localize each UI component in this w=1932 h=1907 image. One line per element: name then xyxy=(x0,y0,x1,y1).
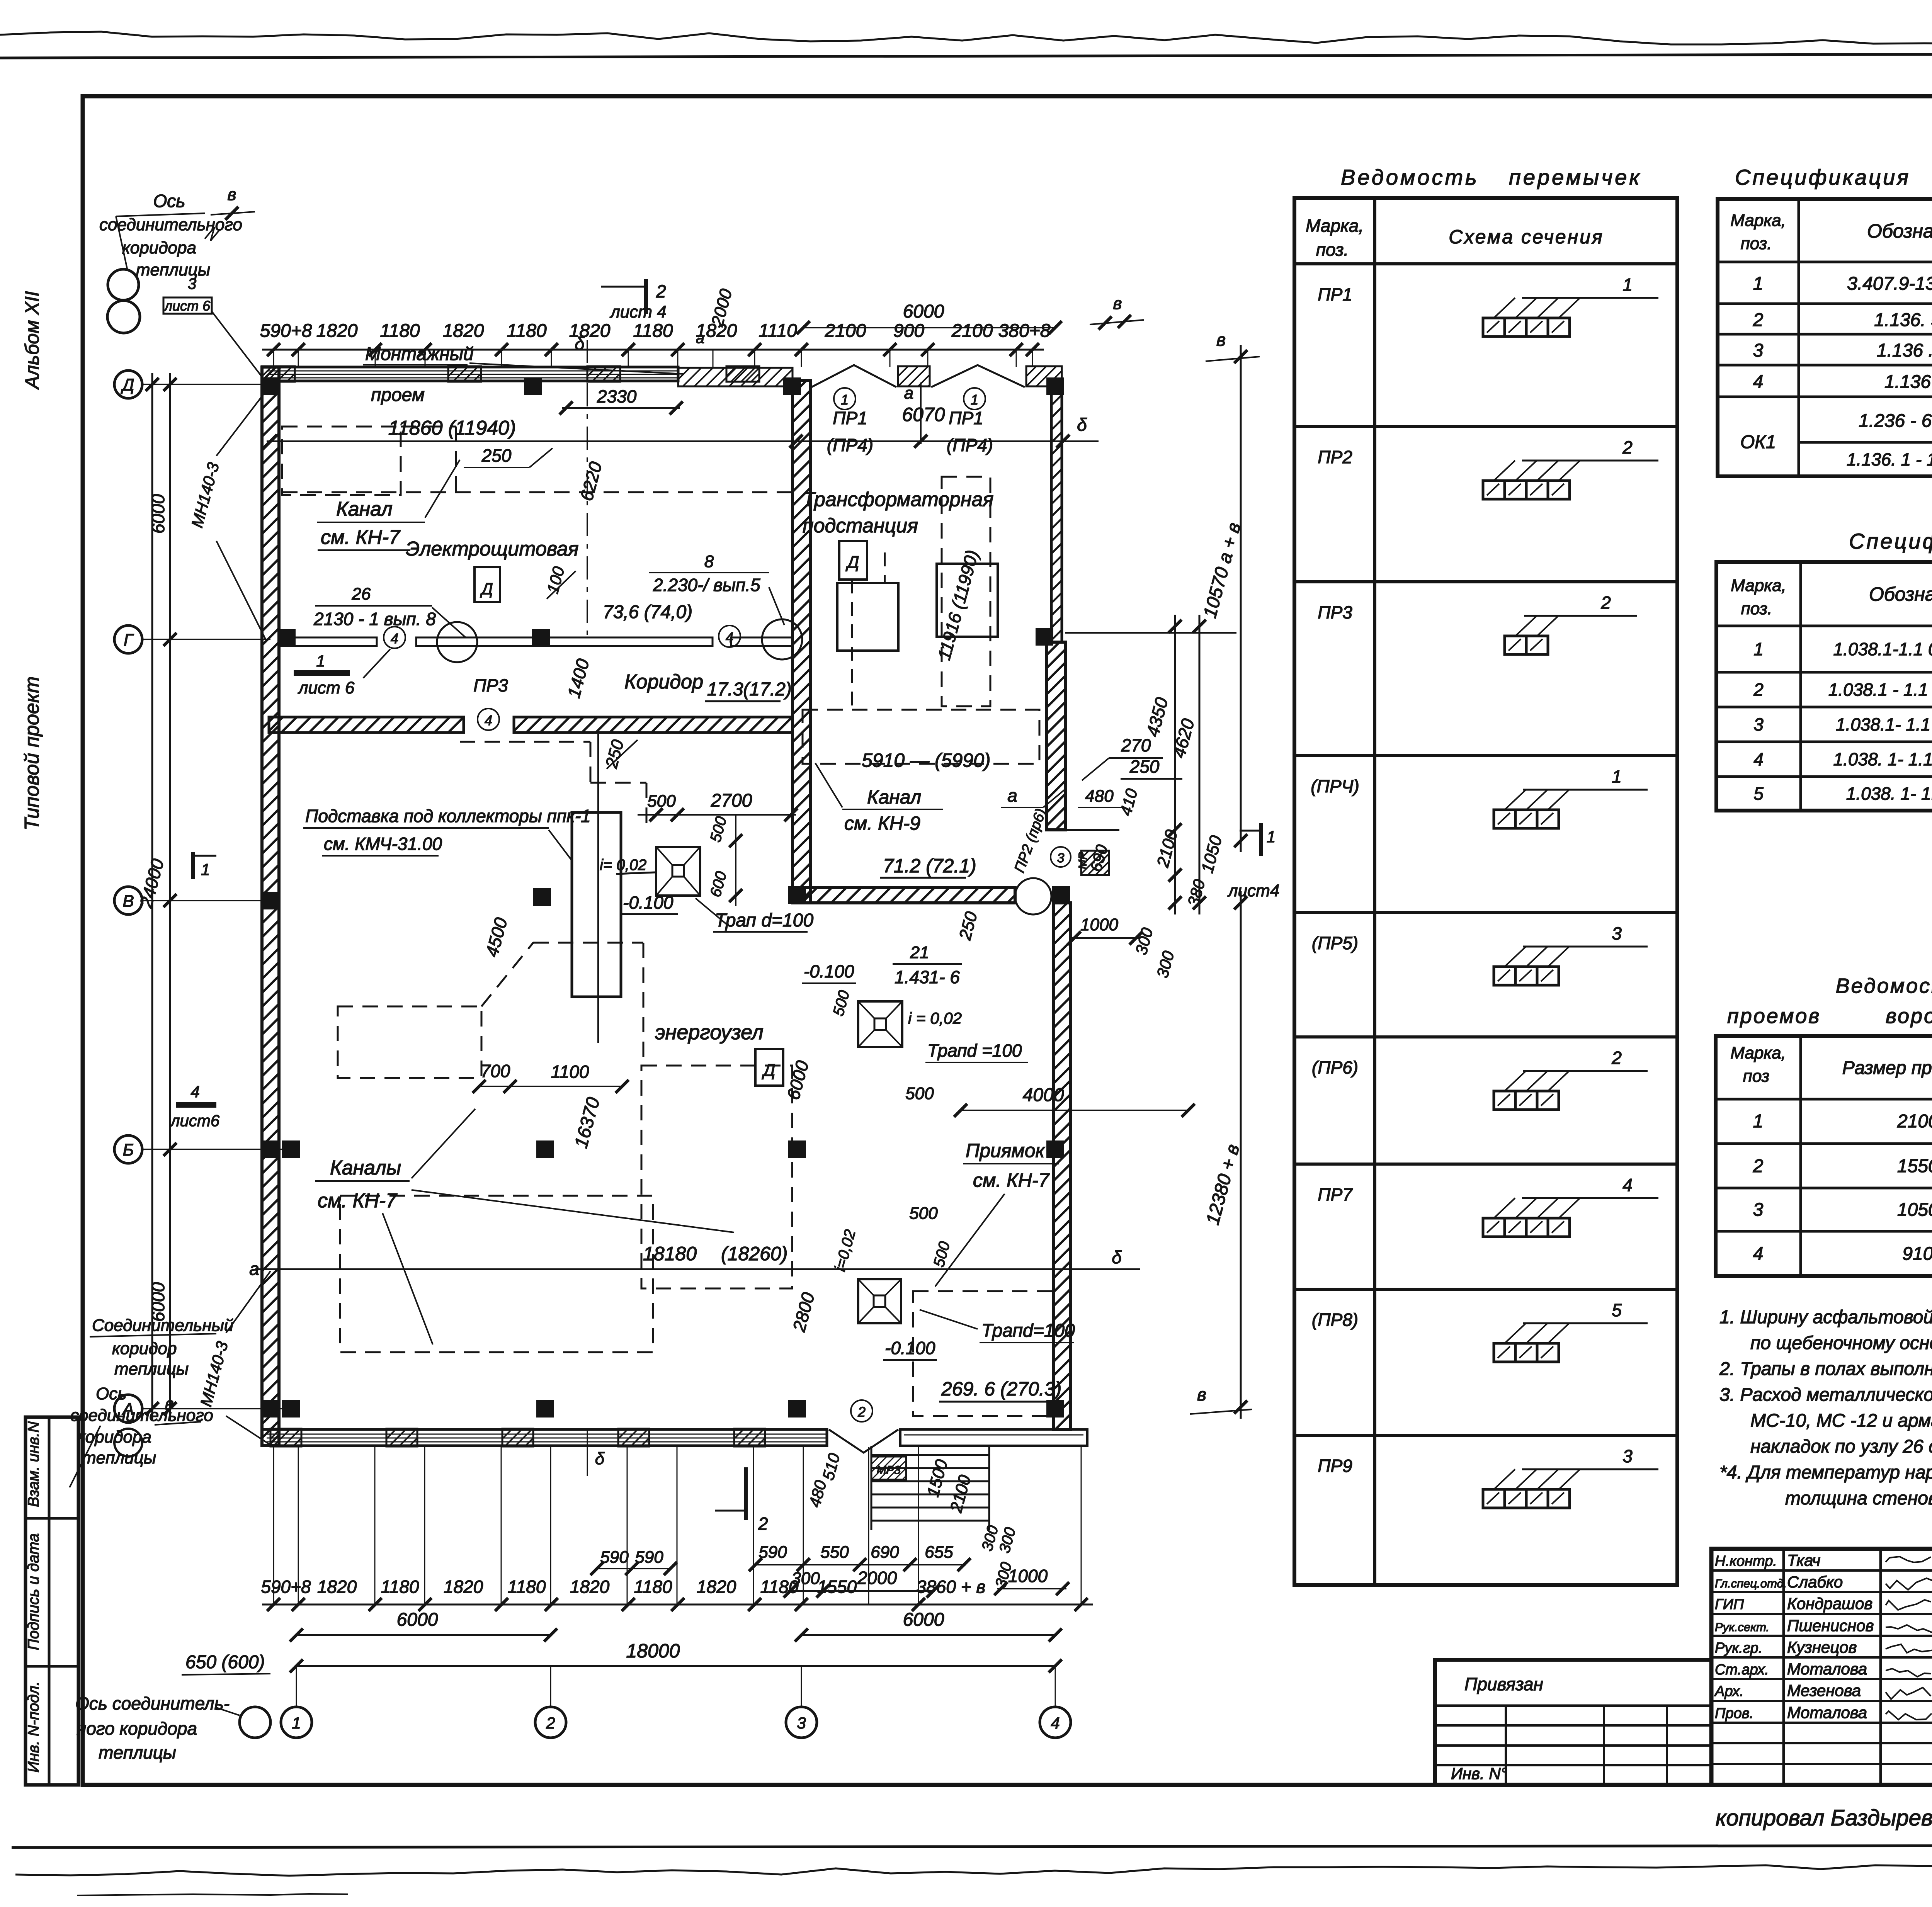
svg-text:ПР3: ПР3 xyxy=(1318,602,1352,622)
svg-text:2.230-/ вып.5: 2.230-/ вып.5 xyxy=(653,575,760,595)
D box electro xyxy=(474,567,500,602)
svg-text:*4. Для температур наруж: *4. Для температур наружного воздуха от … xyxy=(1719,1462,1932,1483)
door circle corridor 1 xyxy=(437,622,477,662)
svg-text:2100: 2100 xyxy=(825,321,866,341)
bottom exterior wall window band xyxy=(262,1429,827,1446)
svg-text:2100: 2100 xyxy=(951,321,993,341)
svg-text:3: 3 xyxy=(1622,1446,1633,1466)
svg-text:269. 6 (270.3): 269. 6 (270.3) xyxy=(941,1378,1061,1400)
svg-text:4: 4 xyxy=(1622,1175,1633,1195)
svg-text:ПР3: ПР3 xyxy=(473,675,508,695)
leader kanal kn9 xyxy=(815,763,842,807)
svg-text:см. КН-9: см. КН-9 xyxy=(844,812,920,834)
svg-text:1.038.1-1.1 040000 - 02: 1.038.1-1.1 040000 - 02 xyxy=(1833,639,1932,659)
svg-text:1.038. 1- 1.1 040000-04: 1.038. 1- 1.1 040000-04 xyxy=(1833,749,1932,769)
svg-text:ворот и дверей: ворот и дверей xyxy=(1886,1004,1932,1028)
svg-text:3. Расход металлической р: 3. Расход металлической решетки МР , сое… xyxy=(1719,1385,1932,1405)
dashed rect B lower room xyxy=(340,1196,653,1352)
svg-text:2330: 2330 xyxy=(597,386,637,406)
svg-text:Обозначение: Обозначение xyxy=(1867,220,1932,242)
svg-text:4: 4 xyxy=(1753,1244,1764,1264)
corridor lower wall hatched segment 1 xyxy=(269,717,464,733)
svg-text:3: 3 xyxy=(188,275,196,292)
svg-text:Соединительный: Соединительный xyxy=(92,1316,233,1335)
axis circle V xyxy=(114,887,142,914)
door mark circle 4 first xyxy=(384,627,405,648)
leader MN140-3 upper xyxy=(216,390,267,456)
svg-text:энергоузел: энергоузел xyxy=(655,1021,764,1044)
svg-text:МРЗ: МРЗ xyxy=(877,1464,901,1477)
corridor upper wall segment 1 xyxy=(288,637,377,646)
svg-text:73,6 (74,0): 73,6 (74,0) xyxy=(603,602,692,622)
svg-text:2: 2 xyxy=(1753,310,1764,330)
right upper wall thin xyxy=(1051,381,1062,642)
svg-text:1: 1 xyxy=(201,860,210,879)
torn paper bottom edge xyxy=(15,1863,1932,1876)
svg-text:Моталова: Моталова xyxy=(1787,1660,1867,1678)
svg-text:-0.100: -0.100 xyxy=(885,1338,935,1358)
leader os bottom xyxy=(216,1708,240,1715)
dashed channel near stand xyxy=(460,741,590,743)
svg-text:Инв. N-подл.: Инв. N-подл. xyxy=(25,1681,42,1773)
svg-text:3: 3 xyxy=(1612,923,1622,943)
axis circle B xyxy=(114,1135,142,1163)
dashed rect A lower room xyxy=(338,1006,481,1078)
svg-text:4: 4 xyxy=(726,629,733,645)
gate pier top right corner xyxy=(1026,366,1062,386)
central wall on axis 3 hatched xyxy=(793,381,810,903)
svg-text:коридора: коридора xyxy=(77,1428,151,1446)
svg-text:проем: проем xyxy=(371,385,425,405)
svg-text:см. КН-7: см. КН-7 xyxy=(321,526,401,549)
svg-text:1.136 - 10: 1.136 - 10 xyxy=(1884,372,1932,392)
svg-text:в: в xyxy=(1197,1384,1206,1404)
column central wall transformer bottom xyxy=(788,886,806,904)
trap T2 symbol xyxy=(858,1001,902,1047)
svg-text:1820: 1820 xyxy=(569,321,611,341)
column squares left wall xyxy=(262,892,279,909)
svg-text:Коридор: Коридор xyxy=(624,671,703,693)
svg-text:1110: 1110 xyxy=(759,321,797,341)
svg-text:2: 2 xyxy=(758,1514,768,1534)
bottom wall right segment xyxy=(900,1429,1087,1446)
svg-text:1.236 - 6 Вып. 1: 1.236 - 6 Вып. 1 xyxy=(1859,411,1932,431)
MR grate box xyxy=(1081,851,1109,875)
svg-text:4: 4 xyxy=(190,1083,199,1101)
svg-text:Арх.: Арх. xyxy=(1714,1683,1744,1700)
leader kanaly 1 xyxy=(412,1109,475,1178)
svg-text:1180: 1180 xyxy=(634,1577,672,1597)
svg-text:Размер проема в кладке: Размер проема в кладке xyxy=(1842,1058,1932,1078)
svg-text:2130 - 1 вып. 8: 2130 - 1 вып. 8 xyxy=(313,609,436,629)
svg-text:лист4: лист4 xyxy=(1227,881,1279,900)
svg-text:i= 0,02: i= 0,02 xyxy=(600,857,646,874)
svg-text:1: 1 xyxy=(1753,1111,1764,1132)
svg-text:Ведомость: Ведомость xyxy=(1836,974,1932,998)
column B row axis2 xyxy=(533,888,551,906)
svg-text:4: 4 xyxy=(391,631,398,646)
svg-text:2700: 2700 xyxy=(711,790,752,811)
svg-text:Инв. N°: Инв. N° xyxy=(1451,1764,1507,1783)
trap T1 symbol xyxy=(656,847,700,896)
stair notch top line xyxy=(1046,829,1119,831)
axis circle 1 xyxy=(281,1707,312,1738)
left dimension line 24000 xyxy=(169,373,171,1420)
svg-text:Н.контр.: Н.контр. xyxy=(1715,1553,1777,1569)
svg-text:380+8: 380+8 xyxy=(998,321,1051,341)
svg-text:1820: 1820 xyxy=(317,1577,357,1597)
svg-text:δ: δ xyxy=(1077,415,1087,435)
svg-text:лист 6: лист 6 xyxy=(164,298,211,314)
table Spec elementov grid xyxy=(1718,199,1932,476)
svg-text:лист 6: лист 6 xyxy=(298,678,355,697)
svg-text:в: в xyxy=(165,1394,174,1413)
title block left extension xyxy=(1435,1660,1711,1785)
svg-text:Ось: Ось xyxy=(96,1384,126,1403)
axis line V xyxy=(142,900,267,901)
svg-text:1180: 1180 xyxy=(507,321,547,341)
svg-text:Подставка под коллекторы ппк-1: Подставка под коллекторы ппк-1 xyxy=(305,806,591,826)
svg-text:690: 690 xyxy=(871,1543,899,1562)
svg-text:а: а xyxy=(249,1259,259,1279)
svg-text:ПР1: ПР1 xyxy=(949,408,983,428)
torn paper top edge xyxy=(0,32,1932,46)
svg-text:проемов: проемов xyxy=(1727,1004,1821,1028)
svg-text:480: 480 xyxy=(1085,787,1114,806)
svg-text:1: 1 xyxy=(1267,828,1276,846)
svg-text:3: 3 xyxy=(797,1714,806,1732)
svg-text:по щебеночному основанию т: по щебеночному основанию толщиной 100 мм… xyxy=(1750,1333,1932,1353)
far right dim line 12380 xyxy=(1240,891,1242,1419)
svg-text:Ткач: Ткач xyxy=(1787,1551,1820,1569)
row ПР3 lintel icon 2 xyxy=(1505,636,1526,654)
top chain verticals xyxy=(273,350,274,367)
svg-text:соединительного: соединительного xyxy=(99,215,242,234)
gate pier top right 1 xyxy=(898,366,930,386)
svg-text:подстанция: подстанция xyxy=(803,515,918,537)
svg-text:3860 + в: 3860 + в xyxy=(917,1577,986,1597)
svg-text:4: 4 xyxy=(1753,749,1764,769)
svg-text:1.038. 1- 1.1 040000: 1.038. 1- 1.1 040000 xyxy=(1846,784,1932,804)
vertical dims 500 600 T1 xyxy=(735,815,736,906)
svg-text:Спецификация: Спецификация xyxy=(1735,165,1910,189)
svg-text:1100: 1100 xyxy=(551,1062,589,1082)
corridor upper wall segment 3 xyxy=(731,637,793,646)
svg-text:ПР7: ПР7 xyxy=(1318,1185,1353,1205)
row ПР7 lintel icon 4 xyxy=(1483,1218,1505,1237)
title block outer border xyxy=(1711,1549,1932,1785)
svg-text:Гл.спец.отд.: Гл.спец.отд. xyxy=(1715,1577,1787,1590)
svg-text:теплицы: теплицы xyxy=(82,1448,156,1467)
svg-text:Ось: Ось xyxy=(153,191,185,211)
ref mark 4 list6 left xyxy=(176,1102,216,1108)
svg-text:1: 1 xyxy=(841,392,849,408)
leader MN140-3 lower xyxy=(226,1271,270,1333)
leader trap T3 xyxy=(920,1310,978,1329)
svg-text:Приямок: Приямок xyxy=(966,1140,1046,1161)
svg-text:перемычек: перемычек xyxy=(1509,165,1642,189)
door circle corridor 2 xyxy=(762,619,802,659)
sheet top rule line xyxy=(0,53,1932,58)
svg-text:Трап d=100: Трап d=100 xyxy=(715,910,813,931)
corridor upper wall segment 2 xyxy=(416,637,713,646)
top dim 6000 axis3-axis4 xyxy=(803,327,1055,328)
svg-text:(ПР8): (ПР8) xyxy=(1312,1310,1358,1330)
title block signature row lines xyxy=(1711,1569,1932,1572)
svg-text:Моталова: Моталова xyxy=(1787,1703,1867,1722)
svg-text:1.136. 1 - 13 Вып. 1: 1.136. 1 - 13 Вып. 1 xyxy=(1847,449,1932,469)
svg-text:1550: 1550 xyxy=(817,1577,857,1597)
leader 2130 to door xyxy=(432,607,466,637)
svg-text:250: 250 xyxy=(1129,756,1160,777)
collector stand rect xyxy=(572,812,621,997)
svg-text:1: 1 xyxy=(1612,767,1622,787)
svg-text:а: а xyxy=(904,384,913,403)
svg-text:в: в xyxy=(1113,294,1122,313)
interior dim line 11860-6070 with b mark xyxy=(267,440,1099,442)
svg-text:лист 4: лист 4 xyxy=(609,303,667,321)
svg-text:Марка,: Марка, xyxy=(1731,576,1786,595)
svg-text:1000: 1000 xyxy=(1080,915,1118,934)
axis line G xyxy=(142,639,270,640)
bottom gate circle 2 xyxy=(851,1400,872,1422)
svg-text:1.038.1 - 1.1 010000 - 01: 1.038.1 - 1.1 010000 - 01 xyxy=(1828,680,1932,700)
svg-text:Монтажный: Монтажный xyxy=(365,344,474,364)
svg-text:Подпись и дата: Подпись и дата xyxy=(25,1533,42,1650)
dashed pit rectangle xyxy=(913,1291,1054,1416)
svg-text:500: 500 xyxy=(905,1084,934,1103)
svg-text:3: 3 xyxy=(1753,714,1764,734)
squiggle mark xyxy=(205,227,220,241)
section mark 2 top xyxy=(644,279,648,314)
left margin stamp column xyxy=(26,1417,78,1785)
svg-text:δ: δ xyxy=(595,1449,605,1468)
svg-text:1.431- 6: 1.431- 6 xyxy=(895,967,960,987)
svg-text:(18260): (18260) xyxy=(721,1243,787,1265)
svg-text:Схема сечения: Схема сечения xyxy=(1449,226,1604,248)
axis circle 3 xyxy=(786,1707,817,1738)
svg-text:5: 5 xyxy=(1612,1300,1622,1320)
axis circle A xyxy=(114,1395,142,1423)
svg-text:4: 4 xyxy=(1753,372,1764,392)
svg-text:Кузнецов: Кузнецов xyxy=(1787,1638,1857,1656)
svg-text:ного коридора: ного коридора xyxy=(77,1718,197,1739)
svg-text:1550 х 2100: 1550 х 2100 xyxy=(1897,1156,1932,1176)
svg-text:1.038.1- 1.1 020000-04: 1.038.1- 1.1 020000-04 xyxy=(1836,714,1932,734)
svg-text:2. Трапы в полах выполнить: 2. Трапы в полах выполнить согласно дета… xyxy=(1719,1359,1932,1379)
leader bottom left circles xyxy=(70,1426,100,1487)
svg-text:4: 4 xyxy=(485,712,492,728)
svg-text:ГИП: ГИП xyxy=(1715,1596,1744,1613)
svg-text:650 (600): 650 (600) xyxy=(185,1652,265,1672)
svg-text:теплицы: теплицы xyxy=(99,1742,176,1763)
row (ПР6) lintel icon 2 xyxy=(1494,1091,1515,1110)
svg-text:910 х 2070: 910 х 2070 xyxy=(1902,1244,1932,1264)
svg-text:поз.: поз. xyxy=(1741,599,1772,618)
sheet bottom rule line xyxy=(12,1845,1932,1848)
svg-text:поз.: поз. xyxy=(1741,234,1772,253)
svg-text:коридора: коридора xyxy=(122,238,196,257)
svg-text:1000: 1000 xyxy=(1008,1566,1048,1586)
gate leaf V symbol 1 xyxy=(811,365,896,387)
dashed diagonal link A to C xyxy=(481,943,533,1006)
svg-text:1: 1 xyxy=(292,1714,301,1732)
trap T3 symbol xyxy=(858,1279,901,1323)
svg-text:В: В xyxy=(122,892,134,911)
row ПР9 lintel icon 3 xyxy=(1483,1489,1505,1508)
dashed drops from D box xyxy=(851,580,853,713)
top exterior wall window band xyxy=(262,367,678,381)
svg-text:2: 2 xyxy=(857,1404,866,1420)
svg-text:2: 2 xyxy=(1600,593,1611,613)
row ПР2 lintel icon 2 xyxy=(1483,481,1505,499)
bottom chain small dims xyxy=(262,1604,1093,1606)
svg-text:накладок по узлу 26 см.: накладок по узлу 26 см. спецификацию на … xyxy=(1750,1436,1932,1457)
svg-text:655: 655 xyxy=(925,1543,953,1562)
svg-text:Марка,: Марка, xyxy=(1730,211,1786,230)
svg-text:копировал Баздырева: копировал Баздырева xyxy=(1716,1805,1932,1831)
gate leaf V symbol 2 xyxy=(931,365,1025,387)
svg-text:500: 500 xyxy=(909,1204,938,1223)
column squares A row xyxy=(282,1400,300,1418)
svg-text:1180: 1180 xyxy=(380,321,420,341)
bottom wall piers xyxy=(270,1429,301,1446)
left dimension line outer xyxy=(151,373,153,1420)
svg-text:а: а xyxy=(1007,785,1017,806)
table Vedomost peremychek grid xyxy=(1294,198,1677,1585)
svg-text:(ПР4): (ПР4) xyxy=(827,435,873,455)
top dimension chain small xyxy=(262,349,1044,351)
svg-text:ПР9: ПР9 xyxy=(1318,1456,1352,1476)
svg-text:Рук.гр.: Рук.гр. xyxy=(1715,1640,1762,1656)
svg-text:17.3(17.2): 17.3(17.2) xyxy=(707,679,792,700)
svg-text:6000: 6000 xyxy=(148,494,168,534)
svg-text:Привязан: Привязан xyxy=(1464,1674,1543,1694)
door mark circle 4 PR3 xyxy=(478,709,499,730)
door opening circle PR2 xyxy=(1015,878,1051,914)
dashed channel outline upper room xyxy=(282,427,401,495)
transformer solid box left xyxy=(837,583,898,651)
row (ПРЧ) lintel icon 1 xyxy=(1494,810,1515,828)
svg-text:лист6: лист6 xyxy=(170,1112,220,1130)
gate mark circle 1 second xyxy=(964,388,985,410)
svg-text:8: 8 xyxy=(704,552,714,571)
svg-text:2: 2 xyxy=(1611,1048,1622,1068)
corridor lower wall hatched segment 2 xyxy=(514,717,793,733)
svg-text:6000: 6000 xyxy=(903,301,944,322)
bottom dim 6000 right xyxy=(801,1634,1055,1636)
svg-text:6000: 6000 xyxy=(903,1610,944,1630)
transformer solid box right xyxy=(937,564,998,637)
svg-text:теплицы: теплицы xyxy=(114,1360,189,1378)
ref 1 list6 left mid xyxy=(294,670,350,676)
row (ПР5) lintel icon 3 xyxy=(1494,967,1515,985)
svg-text:Ось соединитель-: Ось соединитель- xyxy=(75,1693,230,1713)
svg-text:Обозначение: Обозначение xyxy=(1869,583,1932,605)
door mark circle 3 xyxy=(1051,847,1071,867)
leader priyamok xyxy=(935,1194,1005,1287)
right wall middle hatched xyxy=(1046,642,1065,830)
svg-text:ПР1: ПР1 xyxy=(1318,284,1352,304)
svg-text:Канал: Канал xyxy=(867,786,921,808)
svg-text:-0.100: -0.100 xyxy=(623,892,673,913)
stair lines below MR xyxy=(871,1454,989,1456)
right side connector line xyxy=(1065,632,1236,634)
corner column transformer bottom xyxy=(1052,886,1070,904)
svg-text:Д: Д xyxy=(121,376,134,394)
svg-text:26: 26 xyxy=(352,585,371,603)
door mark circle 4 second xyxy=(719,625,740,647)
D box energouzel xyxy=(755,1049,783,1086)
axis line A xyxy=(142,1408,294,1409)
svg-text:2: 2 xyxy=(1753,680,1764,700)
bottom dim 6000 left xyxy=(296,1634,551,1636)
svg-text:Электрощитовая: Электрощитовая xyxy=(406,538,579,560)
column squares top row xyxy=(262,377,279,395)
left exterior wall hatched xyxy=(262,367,279,1446)
svg-text:250: 250 xyxy=(481,445,512,466)
svg-text:(ПР6): (ПР6) xyxy=(1312,1057,1358,1078)
svg-text:Пшениснов: Пшениснов xyxy=(1787,1616,1874,1635)
svg-text:см. КН-7: см. КН-7 xyxy=(318,1190,398,1212)
svg-text:270: 270 xyxy=(1121,735,1151,755)
svg-text:1: 1 xyxy=(1753,274,1764,294)
svg-text:(ПР4): (ПР4) xyxy=(947,435,993,455)
transformer equipment dashed tall xyxy=(942,477,990,706)
bottom dim 18000 xyxy=(296,1665,1055,1667)
svg-text:см. КН-7: см. КН-7 xyxy=(973,1169,1050,1191)
svg-text:1820: 1820 xyxy=(444,1577,483,1597)
extra axis circle below A xyxy=(114,1429,142,1457)
top wall assembly opening hatched (Montazhny proem) xyxy=(678,368,793,386)
axis line D xyxy=(142,384,267,385)
svg-text:Спецификация: Спецификация xyxy=(1849,529,1932,553)
svg-text:1: 1 xyxy=(316,652,325,670)
axis circle D xyxy=(114,371,142,398)
svg-text:теплицы: теплицы xyxy=(136,260,210,279)
svg-text:Каналы: Каналы xyxy=(330,1157,401,1179)
svg-text:18180: 18180 xyxy=(643,1243,697,1265)
section mark 1 right xyxy=(1259,823,1263,856)
svg-text:1. Ширину асфальтовой отмо: 1. Ширину асфальтовой отмостки вокруг зд… xyxy=(1719,1307,1932,1327)
bottom gate V symbol xyxy=(829,1429,898,1453)
svg-text:590+8: 590+8 xyxy=(261,1577,311,1597)
axis circle G xyxy=(114,625,142,653)
svg-text:Альбом XII: Альбом XII xyxy=(21,291,43,390)
row ПР1 lintel icon 1 xyxy=(1483,318,1505,337)
svg-text:1820: 1820 xyxy=(316,321,358,341)
svg-text:71.2 (72.1): 71.2 (72.1) xyxy=(883,855,976,877)
D box transformer xyxy=(839,541,867,580)
svg-text:4: 4 xyxy=(1051,1714,1060,1732)
svg-text:Д: Д xyxy=(762,1061,776,1080)
svg-text:Канал: Канал xyxy=(336,498,393,520)
svg-text:(ПРЧ): (ПРЧ) xyxy=(1311,776,1359,796)
svg-text:1820: 1820 xyxy=(443,321,484,341)
leader montazhny xyxy=(469,363,684,374)
svg-text:Слабко: Слабко xyxy=(1787,1573,1843,1591)
svg-text:δ: δ xyxy=(1112,1247,1122,1267)
lower right wall xyxy=(1053,903,1070,1429)
svg-text:Марка,: Марка, xyxy=(1306,216,1364,236)
axis circle 2 xyxy=(535,1707,566,1738)
svg-text:в: в xyxy=(1216,330,1226,350)
leader podstavka xyxy=(549,830,573,862)
svg-text:590: 590 xyxy=(635,1548,663,1567)
svg-text:2: 2 xyxy=(546,1714,555,1732)
svg-text:21: 21 xyxy=(910,943,929,962)
svg-text:а: а xyxy=(696,330,704,347)
